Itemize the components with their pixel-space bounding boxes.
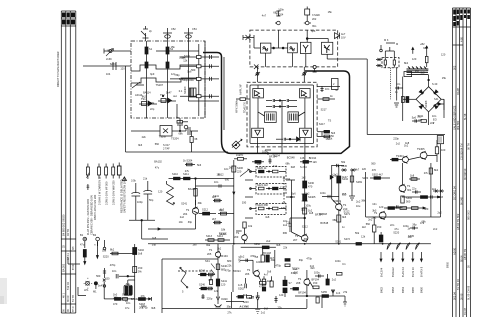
svg-text:C52: C52 [171,27,176,31]
svg-text:22k: 22k [282,201,287,205]
IC right exits [317,86,340,136]
lamp symbol [84,278,93,292]
svg-text:S262: S262 [238,287,245,291]
mute line dotted [390,68,392,100]
svg-text:FLAT PIN 4MM - FASTON 4MM: FLAT PIN 4MM - FASTON 4MM [86,199,90,235]
audio stage1 res2 [216,279,227,287]
IF amp rail [304,161,306,235]
stage mid cap [201,294,204,299]
svg-text:SK1: SK1 [205,259,210,263]
scan smudge artifact [0,278,7,304]
svg-text:208: 208 [296,281,301,285]
muting res [236,222,253,231]
det center label [424,100,428,108]
svg-text:B-MPX 8: B-MPX 8 [420,266,424,277]
tuner wire row2 [131,78,198,83]
svg-text:S244: S244 [199,269,206,273]
svg-text:22k: 22k [227,264,232,268]
svg-text:30 548 90: 30 548 90 [463,168,467,180]
svg-text:5p6: 5p6 [311,29,316,33]
svg-text:4k7: 4k7 [165,97,170,101]
jack terminal circle2 [93,233,99,246]
svg-text:0.1: 0.1 [179,89,183,93]
svg-text:S41: S41 [434,97,439,101]
svg-text:202: 202 [312,17,317,21]
svg-text:100n: 100n [335,259,341,263]
AF caps cluster [412,187,421,194]
rail right component r34 [139,297,152,310]
volume pot arrow [232,139,242,149]
AF bottom coil [379,232,383,242]
svg-text:2x39: 2x39 [106,57,112,61]
svg-text:15k: 15k [328,10,333,14]
svg-text:0u47: 0u47 [98,284,104,288]
svg-text:562 04: 562 04 [453,292,457,300]
svg-text:470p: 470p [275,263,281,267]
mixer res Rm2 [183,172,190,180]
svg-text:470: 470 [372,168,377,172]
svg-text:206: 206 [245,272,250,276]
svg-text:560: 560 [96,274,101,278]
IF trimmer T2 with detector [304,7,311,43]
legend resistor sym5 [117,163,121,179]
svg-text:22n: 22n [390,223,395,227]
right strip extra texts [453,65,471,315]
svg-text:39k: 39k [361,199,366,203]
mixer res Rm1 [172,172,180,180]
svg-text:S302 4k7: S302 4k7 [372,173,383,177]
IC transformer block X1 [265,112,277,123]
IC cap row1 [266,99,297,102]
AF mid res [409,174,420,181]
svg-text:04 TM: 04 TM [66,229,70,236]
svg-text:3 OHM 5 W CARBON 12: 3 OHM 5 W CARBON 12 [97,176,101,205]
IC demod block B1 [252,128,264,137]
svg-text:47u: 47u [394,227,399,231]
svg-text:S 264: S 264 [300,165,307,169]
svg-text:TS: TS [298,277,302,281]
IF amp trans TS5 [293,234,308,242]
svg-text:100: 100 [441,148,446,152]
svg-text:3.2W 5-10% MF 560: 3.2W 5-10% MF 560 [104,181,108,205]
svg-text:+B2: +B2 [420,42,425,46]
mixer base feed [148,214,196,230]
left strip header text [62,13,75,25]
svg-text:1n5: 1n5 [238,283,243,287]
strip bottom extra texts [62,245,76,312]
svg-text:12k: 12k [280,186,285,190]
svg-text:BC548: BC548 [319,212,327,216]
svg-text:2u2: 2u2 [332,278,337,282]
ratio detector diamond [416,87,441,112]
svg-text:RESISTANCE IS DELIMITED: RESISTANCE IS DELIMITED [120,179,124,213]
svg-text:S213: S213 [206,234,213,238]
svg-text:4n7: 4n7 [262,14,267,18]
AF top stage trans TS9 [417,147,427,160]
IF block F4 [322,42,333,54]
tuner IF coil S0403 [183,86,196,97]
antenna input terminal [104,48,131,56]
svg-text:10n: 10n [408,235,413,239]
svg-text:220p: 220p [207,296,213,300]
svg-text:1k S204: 1k S204 [183,159,193,163]
svg-text:680: 680 [424,207,429,211]
value labels group A [96,7,447,314]
svg-text:10n: 10n [179,220,184,224]
value labels group B [98,45,426,315]
svg-text:100n: 100n [256,260,262,264]
AGC input components [83,57,131,76]
switch spring S2 [180,267,188,293]
output bus drop [343,296,347,306]
svg-text:22u: 22u [412,187,417,191]
IC left resistor [236,98,250,101]
svg-text:47u: 47u [125,306,130,310]
svg-text:8k2: 8k2 [404,61,409,65]
svg-text:33k: 33k [304,237,309,241]
svg-text:330: 330 [423,46,428,50]
audio stage1 ground [215,305,222,308]
svg-text:470p: 470p [110,263,116,267]
svg-text:560: 560 [371,161,376,165]
svg-text:100u: 100u [305,204,311,208]
AF resistor row [384,207,426,210]
pin arrow p4 [411,252,415,277]
tuner rung r3 [170,77,219,80]
left film strip [61,11,76,313]
svg-text:M5: M5 [71,246,75,250]
audio stage2 res up2 [266,255,275,262]
switch bank left dots [250,171,252,210]
svg-text:TS204: TS204 [292,266,300,270]
IC bottom cap row [276,137,300,141]
svg-text:BA102: BA102 [154,160,162,164]
svg-text:560: 560 [155,142,160,146]
svg-text:0u47: 0u47 [342,175,348,179]
svg-text:BA102: BA102 [131,297,139,301]
svg-text:205: 205 [207,252,212,256]
svg-text:2k2: 2k2 [229,166,234,170]
svg-text:OA90: OA90 [221,297,228,301]
svg-text:27k: 27k [424,171,429,175]
svg-text:120: 120 [120,67,125,71]
svg-text:MPX1: MPX1 [238,255,242,263]
svg-text:S220: S220 [393,231,400,235]
svg-text:8k2: 8k2 [142,95,147,99]
svg-text:TS: TS [159,135,163,139]
svg-text:120: 120 [379,205,384,209]
diode row d2 [397,243,401,250]
svg-text:19kHz: 19kHz [236,153,244,157]
elco cap2 [393,58,395,68]
right film strip [453,8,471,317]
svg-text:S220: S220 [243,300,250,304]
svg-text:062 560: 062 560 [456,120,460,130]
det out trans TS6 [336,165,348,244]
audio stage1 trans TS11 [207,244,221,258]
discriminator: elco dashed box [382,58,399,68]
svg-text:100n: 100n [278,7,284,11]
svg-text:S220: S220 [103,255,110,259]
jack cap feed2 [94,242,98,259]
svg-text:S 017: S 017 [163,143,170,147]
svg-text:2n2: 2n2 [433,227,438,231]
matrix trimpot2 [252,161,264,164]
AF terminal pins left [341,164,356,172]
svg-text:5p6: 5p6 [291,191,296,195]
matrix cap [268,158,271,164]
svg-text:BF194: BF194 [298,291,306,295]
AF right resistor [429,168,438,174]
svg-text:560: 560 [333,199,338,203]
AF res r1 [370,173,390,180]
svg-text:TS: TS [343,203,347,207]
diode row d3 [406,243,410,250]
svg-text:1k8: 1k8 [410,174,415,178]
AFC area parts [177,121,193,153]
svg-text:1k6: 1k6 [313,160,318,164]
deemphasis C [265,150,271,154]
svg-text:220p: 220p [393,136,399,140]
svg-text:8k2: 8k2 [434,168,439,172]
det lower cluster [412,119,427,122]
svg-text:5p6: 5p6 [412,116,417,120]
svg-text:S221 2k2: S221 2k2 [257,183,268,187]
svg-text:TDA1576: TDA1576 [243,102,247,113]
svg-text:100n: 100n [107,49,113,53]
svg-text:27k: 27k [343,290,348,294]
svg-text:S206: S206 [237,166,244,170]
svg-text:10u: 10u [356,204,361,208]
svg-text:120: 120 [362,167,367,171]
right rail lower pair [433,190,444,193]
IF inner drop wires [266,53,293,67]
svg-text:AMPL NF: AMPL NF [239,84,243,95]
svg-text:S303: S303 [437,195,444,199]
det primary box [404,72,412,77]
bank output rail [291,180,302,237]
svg-text:120: 120 [412,57,417,61]
rung caps [210,55,212,98]
audio stage1 diode [217,297,229,304]
svg-text:9L 09 CH 08: 9L 09 CH 08 [466,285,470,300]
svg-text:M1: M1 [93,290,97,294]
det diode D4 [433,104,438,109]
svg-text:S212: S212 [344,209,351,213]
IC inner shield rect [250,85,314,144]
S301 top link [128,280,135,285]
svg-text:150: 150 [377,225,382,229]
osc transistor label [141,93,165,101]
tuner rung r4 [180,95,219,98]
svg-text:1k8: 1k8 [152,236,157,240]
mixer emitter res2 [218,208,234,216]
audio stage1 res1 [216,257,227,296]
svg-text:R5W 5-10% FILM 220: R5W 5-10% FILM 220 [93,194,97,220]
svg-text:18k: 18k [217,172,222,176]
svg-text:1k2: 1k2 [404,144,409,148]
svg-text:90 548: 90 548 [460,197,464,205]
osc join wire [129,220,168,240]
svg-text:TS: TS [186,208,190,212]
aux lead cap [103,240,106,287]
right strip header text [453,10,470,27]
svg-text:TS207: TS207 [156,83,164,87]
mixer top res [183,159,202,168]
svg-text:47u: 47u [80,243,85,247]
svg-text:1k8: 1k8 [255,294,260,298]
AF cap c1 [393,205,403,208]
svg-text:2u2: 2u2 [180,215,185,219]
tuner coil L1 [145,41,148,112]
audio stage2 emitter res [259,276,267,289]
svg-text:150: 150 [415,69,420,73]
svg-text:150: 150 [105,277,110,281]
svg-text:CERAMIC 680 - DERANGED 100V: CERAMIC 680 - DERANGED 100V [90,195,94,235]
svg-text:4u7: 4u7 [341,32,346,36]
rail bottom text [125,299,130,310]
audio stage3 marks [285,259,290,267]
left long rail [125,66,127,152]
svg-text:S0403: S0403 [183,86,187,94]
svg-text:AF: AF [325,129,329,133]
svg-text:S220 1k: S220 1k [257,166,267,170]
svg-text:BC148: BC148 [263,251,271,255]
tuner bottom exit wires [147,104,178,118]
svg-text:CO 562 04 TM: CO 562 04 TM [460,143,464,160]
shield inner line [223,57,225,130]
svg-text:BC548: BC548 [320,221,328,225]
svg-text:3k3: 3k3 [310,266,315,270]
svg-text:680: 680 [283,231,288,235]
corner elbow wire [68,258,80,264]
svg-text:S0406: S0406 [424,100,428,108]
pin arrow p1 [379,252,383,277]
tuner osc line C [188,41,190,101]
svg-text:B4 9B0 503 S9030: B4 9B0 503 S9030 [62,214,66,236]
pin arrow p2 [391,252,395,277]
svg-text:330p: 330p [182,78,188,82]
svg-text:2n2: 2n2 [368,218,373,222]
svg-text:10n: 10n [372,202,377,206]
audio stage2 input cap [238,255,254,263]
bottom return bus [232,305,307,313]
audio stage2 top bus [241,242,276,249]
svg-text:39n: 39n [312,24,317,28]
svg-text:S0406: S0406 [219,232,227,236]
AF loop left rail [365,172,367,217]
svg-text:3 SAW: 3 SAW [312,13,320,17]
speaker dot [93,282,98,294]
svg-text:220: 220 [237,170,242,174]
svg-text:56k: 56k [355,231,360,235]
legend resistor sym1 [86,164,89,180]
svg-text:680: 680 [225,178,230,182]
output stage wires [295,285,345,297]
svg-text:30 98: 30 98 [460,293,464,300]
AF loop right rail [366,163,431,217]
svg-text:100u: 100u [314,271,320,275]
IC right cap pair [320,86,329,92]
det diode D1 [419,90,424,95]
svg-text:S241: S241 [213,194,220,198]
IF amp branch [283,217,306,232]
AF output coupling box [437,136,443,144]
center bottom network [205,234,230,247]
diode row d4 [416,243,420,250]
IF F3 down wire [305,54,307,67]
svg-text:BF194: BF194 [233,269,241,273]
svg-text:S217: S217 [319,122,326,126]
svg-text:M 3: M 3 [384,38,389,42]
pin arrow p3 [401,252,405,277]
svg-text:100u: 100u [262,150,268,154]
svg-text:560: 560 [406,200,411,204]
svg-text:2 TAF: 2 TAF [163,147,170,151]
relay grid box S301 [124,285,132,295]
AF top row [402,195,440,198]
svg-text:1k8: 1k8 [192,243,197,247]
svg-text:120: 120 [221,283,226,287]
tuner inner labels [135,47,178,111]
det right rail [441,99,444,118]
svg-text:150: 150 [342,192,347,196]
det out res2 [337,176,349,183]
det resistor R [425,56,428,67]
svg-text:512 04: 512 04 [66,282,70,290]
svg-text:10n: 10n [112,269,117,273]
jack cap feed1 [80,243,86,265]
svg-text:3p9: 3p9 [150,72,155,76]
audio stage2 label [240,305,250,309]
IC cap row2 [266,105,297,108]
svg-text:27k: 27k [150,101,155,105]
IC top exit wire2 [302,67,307,82]
svg-text:TS: TS [247,268,251,272]
svg-text:TS204: TS204 [283,177,291,181]
svg-text:330: 330 [242,201,247,205]
svg-text:TS: TS [209,248,213,252]
svg-text:21k: 21k [143,177,148,181]
mute vertical [394,68,399,107]
svg-text:100n: 100n [320,191,326,195]
bottom mid cap pair [274,296,277,303]
det diode D3 [419,104,424,109]
svg-text:2u2: 2u2 [356,200,361,204]
IF input terminal [243,35,254,48]
svg-text:B-FM 10: B-FM 10 [411,267,415,277]
svg-text:1n4: 1n4 [336,291,341,295]
svg-text:1k8: 1k8 [265,215,270,219]
svg-text:560: 560 [294,271,299,275]
svg-text:S230: S230 [308,181,315,185]
level arrow1 [412,48,414,54]
svg-text:AD 90: AD 90 [453,247,457,255]
svg-text:3.5k: 3.5k [131,179,137,183]
svg-text:15k: 15k [442,76,447,80]
svg-text:100p: 100p [137,200,143,204]
svg-text:22p: 22p [150,107,155,111]
svg-text:680: 680 [227,259,232,263]
svg-text:BF194: BF194 [312,278,320,282]
right mid extra parts [349,170,418,245]
audio stage2 trans TS12 [245,260,259,277]
switch row3 contents [250,203,286,210]
svg-text:40 1: 40 1 [62,292,66,298]
svg-text:560: 560 [191,68,196,72]
bottom stage extra parts [236,273,342,304]
svg-text:2k7: 2k7 [212,217,217,221]
